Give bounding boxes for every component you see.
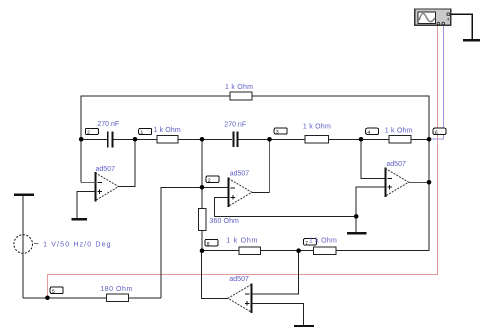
wire: node1-to-op2 vertical chain (node 202) xyxy=(201,139,203,208)
op-amp U4 ad507 (points left) xyxy=(250,283,252,313)
resistor R5 180 Ohm xyxy=(107,294,129,302)
wire: op4 output up to bottom row node xyxy=(202,251,228,299)
svg-text:1 k Ohm: 1 k Ohm xyxy=(303,124,331,131)
svg-text:8: 8 xyxy=(207,241,210,247)
svg-text:3: 3 xyxy=(276,130,279,136)
wire: right vertical output bus down to bottom row xyxy=(336,139,429,250)
svg-text:ad507: ad507 xyxy=(96,166,116,173)
node: op1 output xyxy=(133,137,138,142)
node tag 5 (input node) xyxy=(50,287,63,294)
wire: scope probe A (pink) vertical from scope to bottom row xyxy=(47,25,437,298)
oscilloscope XSC1 xyxy=(415,9,451,25)
wire: op2 output up to node 3 xyxy=(252,191,270,193)
capacitor C2 270 nF xyxy=(232,131,234,147)
node: output bus top xyxy=(427,137,432,142)
resistor R1 1 k Ohm (mid row) xyxy=(157,136,178,143)
node: bottom row left xyxy=(200,248,205,253)
wire: bottom row segments xyxy=(202,250,239,252)
wire: bottom input wire xyxy=(23,297,106,299)
node: ground rail junction xyxy=(354,214,359,219)
AC source V1 circle xyxy=(14,235,33,254)
op-amp U1 ad507 xyxy=(94,172,96,202)
svg-text:270 nF: 270 nF xyxy=(224,121,246,128)
svg-text:4: 4 xyxy=(367,130,370,136)
node: op2 branch top xyxy=(200,137,205,142)
wire: op4 inverting input from bottom row node xyxy=(251,251,298,294)
node: op1 inverting / C1 left xyxy=(79,137,84,142)
svg-text:ad507: ad507 xyxy=(229,276,249,283)
wire: op1 non-inverting input to ground xyxy=(77,192,95,219)
resistor R7 1 k Ohm (bottom right) xyxy=(314,247,336,254)
node tag 1 xyxy=(139,128,152,134)
wire: top feedback right segment xyxy=(252,96,429,139)
resistor R4 1 k Ohm (op3 feedback) xyxy=(389,136,411,143)
wire: op4 non-inverting to ground xyxy=(251,303,303,325)
svg-text:1: 1 xyxy=(140,130,143,136)
node tag 2 (op1 inverting node) xyxy=(85,128,98,134)
ground (op1 +) xyxy=(72,218,88,221)
svg-text:1 k Ohm: 1 k Ohm xyxy=(385,128,413,135)
node: bottom row mid xyxy=(296,248,301,253)
source V1: ground bar on top xyxy=(14,194,34,196)
node tag 9 (op2 inverting node) xyxy=(206,176,219,183)
wire: op3 output to right vertical xyxy=(409,181,429,183)
wire: scope ground xyxy=(451,14,473,40)
node tag 4 xyxy=(366,128,379,134)
wire: op1 inverting input xyxy=(81,182,95,184)
op-amp U3 ad507 xyxy=(384,167,386,197)
capacitor C1 270 nF xyxy=(107,131,109,147)
ground (op4 +) xyxy=(294,325,314,327)
node: op2 output xyxy=(267,137,272,142)
svg-text:7: 7 xyxy=(305,241,308,247)
resistor R8 1 k Ohm (bottom left) xyxy=(239,247,260,254)
wire: op1 output up to node 1 xyxy=(119,139,135,186)
op-amp U2 ad507 xyxy=(227,177,229,207)
wire: input feed from 180 Ohm up to op2 inverting node xyxy=(161,187,229,297)
svg-text:ad507: ad507 xyxy=(386,161,406,168)
node tag 6 (output net) xyxy=(433,128,446,134)
wire: top feedback left segment xyxy=(81,96,230,183)
resistor R2 360 Ohm (vertical) xyxy=(199,209,206,231)
wire: op3 non-inverting to ground xyxy=(356,187,385,233)
svg-text:270 nF: 270 nF xyxy=(97,121,119,128)
node: op3 inverting xyxy=(359,137,364,142)
resistor R3 1 k Ohm (op2 out to op3 in) xyxy=(305,136,329,143)
resistor R top 1 k Ohm (feedback) xyxy=(230,92,252,100)
ground (scope) xyxy=(463,39,480,41)
svg-text:1 k Ohm: 1 k Ohm xyxy=(154,127,181,134)
svg-text:~: ~ xyxy=(34,239,39,249)
svg-text:2: 2 xyxy=(87,130,90,136)
node tag 8 xyxy=(205,239,218,246)
node: op3 output xyxy=(427,180,432,185)
svg-text:1 V/50 Hz/0 Deg: 1 V/50 Hz/0 Deg xyxy=(43,242,112,249)
wire: op3 inverting input from node 4 xyxy=(361,139,385,178)
svg-text:2: 2 xyxy=(208,178,211,184)
svg-text:1 k Ohm: 1 k Ohm xyxy=(225,84,253,91)
svg-text:5: 5 xyxy=(52,289,55,295)
ground (op2/op3 +) xyxy=(347,232,366,234)
svg-text:360 Ohm: 360 Ohm xyxy=(210,218,240,225)
node tag 3 (op2 output node) xyxy=(274,128,287,134)
svg-text:1 k Ohm: 1 k Ohm xyxy=(226,238,258,245)
wire: op2 non-inverting to ground rail xyxy=(215,197,357,216)
svg-text:ad507: ad507 xyxy=(230,170,250,177)
svg-text:6: 6 xyxy=(435,130,438,136)
svg-text:180 Ohm: 180 Ohm xyxy=(100,286,133,293)
node: input probe xyxy=(45,296,50,301)
node: op2 inverting xyxy=(200,185,205,190)
svg-text:1 k Ohm: 1 k Ohm xyxy=(309,238,337,245)
wire: scope probe B (blue) vertical from scope to output node xyxy=(429,25,444,139)
wire: middle signal row segments xyxy=(81,138,107,140)
node tag 7 xyxy=(304,239,317,246)
wire: source vertical xyxy=(22,196,24,298)
